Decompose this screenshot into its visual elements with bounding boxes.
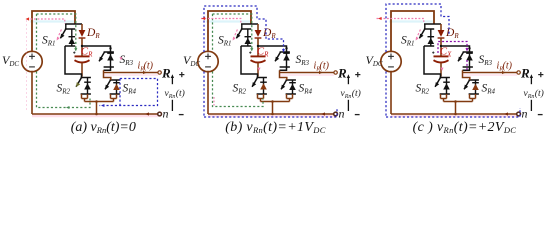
svg-text:R: R [337, 66, 347, 81]
svg-text:(t): (t) [320, 61, 330, 72]
svg-text:(t): (t) [503, 61, 513, 72]
svg-text:(t): (t) [352, 88, 361, 99]
svg-text:(t): (t) [144, 61, 154, 72]
svg-text:R: R [161, 66, 171, 81]
svg-text:n: n [163, 107, 169, 121]
svg-text:n: n [522, 107, 528, 121]
svg-text:R: R [520, 66, 530, 81]
svg-text:(b) vRn(t)=+1VDC: (b) vRn(t)=+1VDC [225, 120, 326, 135]
svg-text:(c ) vRn(t)=+2VDC: (c ) vRn(t)=+2VDC [413, 120, 517, 135]
svg-text:(t): (t) [176, 88, 185, 99]
svg-text:n: n [339, 107, 345, 121]
svg-text:(t): (t) [535, 88, 544, 99]
